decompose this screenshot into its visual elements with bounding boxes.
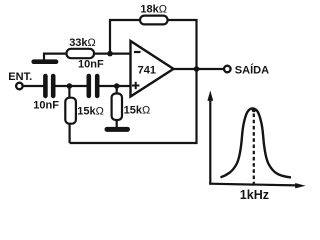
graph response curve bbox=[221, 108, 292, 177]
capacitor C2 10nF bbox=[87, 74, 100, 99]
resistor 18k bbox=[140, 16, 168, 25]
wire feedback rail bbox=[70, 69, 197, 143]
terminal ENT. bbox=[16, 83, 23, 90]
terminal SAIDA bbox=[224, 66, 231, 73]
wire 33k to ground bbox=[44, 54, 67, 60]
svg-text:15kΩ: 15kΩ bbox=[124, 105, 151, 117]
wire input bbox=[24, 85, 44, 87]
node B junction bbox=[114, 83, 120, 89]
resistor 33k bbox=[67, 49, 95, 58]
wire node B segment bbox=[99, 85, 130, 87]
node A junction bbox=[67, 83, 73, 89]
wire 18k left leg bbox=[110, 20, 141, 54]
resistor 15k (left) bbox=[65, 86, 76, 143]
wire 33k to inverting input bbox=[94, 52, 131, 54]
svg-text:ENT.: ENT. bbox=[8, 71, 32, 83]
svg-text:10nF: 10nF bbox=[78, 59, 104, 71]
graph dashed line 1kHz bbox=[253, 114, 255, 185]
wire node A segment bbox=[55, 85, 87, 87]
svg-text:18kΩ: 18kΩ bbox=[140, 4, 167, 16]
svg-text:10nF: 10nF bbox=[33, 99, 59, 111]
svg-text:33kΩ: 33kΩ bbox=[69, 37, 96, 49]
ground (33k left end) bbox=[31, 59, 58, 64]
capacitor C1 10nF bbox=[43, 74, 55, 99]
graph y-axis bbox=[207, 91, 213, 185]
node junction inverting input bbox=[107, 51, 113, 57]
svg-text:741: 741 bbox=[138, 64, 156, 76]
graph x-axis bbox=[209, 183, 305, 188]
graph peak marker dot bbox=[252, 108, 256, 112]
svg-text:1kHz: 1kHz bbox=[240, 188, 269, 202]
svg-text:SAÍDA: SAÍDA bbox=[235, 64, 269, 77]
wire output bbox=[172, 68, 223, 70]
ground (below right 15k) bbox=[105, 127, 131, 132]
svg-text:15kΩ: 15kΩ bbox=[77, 106, 104, 118]
wire 18k right leg bbox=[167, 20, 196, 69]
op-amp U1 741 bbox=[131, 41, 174, 97]
node junction output bbox=[194, 66, 200, 72]
resistor 15k (right) bbox=[112, 86, 122, 128]
